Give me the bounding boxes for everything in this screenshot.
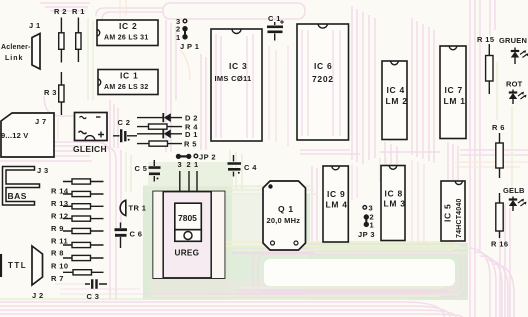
copper ground-plane tint patches bbox=[143, 162, 468, 300]
svg-text:R 1: R 1 bbox=[72, 7, 85, 16]
svg-text:Aclener-: Aclener- bbox=[1, 44, 31, 51]
capacitor C1 bbox=[267, 14, 284, 41]
svg-text:R 10: R 10 bbox=[51, 262, 68, 271]
svg-text:J 1: J 1 bbox=[29, 21, 41, 30]
connector J1 bbox=[29, 21, 41, 69]
LED GELB bbox=[503, 186, 527, 211]
resistor R10 bbox=[51, 255, 104, 270]
svg-text:GELB: GELB bbox=[503, 186, 525, 195]
svg-text:C 1: C 1 bbox=[268, 14, 281, 23]
svg-text:IC 2: IC 2 bbox=[119, 21, 137, 31]
IC2 AM26LS31 bbox=[97, 20, 158, 46]
resistor R2 bbox=[54, 7, 67, 63]
resistor R15 bbox=[477, 35, 494, 94]
svg-text:IC 4: IC 4 bbox=[387, 85, 405, 95]
label Aclener-Link (J1 name) bbox=[1, 44, 31, 62]
LED ROT bbox=[506, 80, 527, 105]
svg-text:JP 2: JP 2 bbox=[199, 153, 216, 162]
jumper JP3 bbox=[358, 204, 375, 240]
svg-text:IC 8: IC 8 bbox=[385, 189, 403, 199]
svg-text:AM 26 LS 31: AM 26 LS 31 bbox=[104, 35, 149, 42]
jumper JP2 bbox=[177, 153, 216, 170]
svg-text:9...12 V: 9...12 V bbox=[1, 131, 28, 140]
svg-text:R 3: R 3 bbox=[44, 88, 57, 97]
capacitor C3 bbox=[85, 279, 107, 301]
voltage regulator UREG 7805 with heatsink bbox=[153, 171, 224, 278]
svg-text:J 3: J 3 bbox=[37, 166, 49, 175]
svg-text:74HCT4040: 74HCT4040 bbox=[456, 198, 463, 238]
svg-text:IC 5: IC 5 bbox=[443, 204, 453, 222]
svg-text:20,0 MHz: 20,0 MHz bbox=[267, 216, 301, 225]
svg-text:GLEICH: GLEICH bbox=[73, 144, 107, 154]
svg-text:C 2: C 2 bbox=[118, 118, 131, 127]
svg-text:IC 3: IC 3 bbox=[229, 61, 247, 71]
svg-text:AM 26 LS 32: AM 26 LS 32 bbox=[104, 84, 149, 91]
capacitor C5 bbox=[135, 160, 161, 182]
svg-text:IC 7: IC 7 bbox=[445, 85, 463, 95]
IC9 LM4 bbox=[323, 166, 348, 242]
svg-text:TTL: TTL bbox=[8, 261, 27, 270]
IC3 IMS C011 bbox=[211, 29, 262, 141]
svg-text:C 3: C 3 bbox=[87, 292, 100, 301]
svg-text:J 7: J 7 bbox=[35, 117, 47, 126]
svg-text:LM 3: LM 3 bbox=[384, 199, 406, 209]
connector J2 bbox=[32, 246, 44, 300]
svg-text:LM 4: LM 4 bbox=[326, 200, 348, 210]
svg-text:IMS CØ11: IMS CØ11 bbox=[215, 74, 252, 83]
svg-text:J P 1: J P 1 bbox=[180, 42, 199, 51]
LED GRUEN bbox=[499, 36, 528, 64]
svg-text:7202: 7202 bbox=[312, 74, 334, 84]
board edge mark left bbox=[0, 254, 2, 277]
svg-text:R 15: R 15 bbox=[477, 35, 494, 44]
svg-text:2: 2 bbox=[187, 160, 192, 169]
svg-text:JP 3: JP 3 bbox=[358, 230, 375, 239]
svg-text:R 5: R 5 bbox=[184, 140, 197, 149]
svg-text:IC 6: IC 6 bbox=[314, 61, 332, 71]
svg-text:3: 3 bbox=[178, 160, 183, 169]
IC8 LM3 bbox=[381, 166, 406, 241]
svg-text:7805: 7805 bbox=[178, 213, 197, 223]
svg-text:D 1: D 1 bbox=[185, 130, 198, 139]
svg-text:IC 1: IC 1 bbox=[120, 71, 138, 81]
resistor R7 bbox=[51, 270, 104, 283]
capacitor C4 bbox=[228, 155, 258, 177]
svg-text:1: 1 bbox=[194, 160, 199, 169]
resistor R13 bbox=[51, 191, 104, 208]
resistor R8 bbox=[51, 242, 104, 257]
svg-text:TR 1: TR 1 bbox=[129, 204, 147, 213]
capacitor C2 bbox=[113, 118, 137, 142]
svg-text:1: 1 bbox=[370, 221, 375, 230]
IC1 AM26LS32 bbox=[98, 70, 158, 95]
resistor R1 bbox=[72, 7, 85, 62]
svg-text:LM 1: LM 1 bbox=[444, 96, 466, 106]
svg-text:UREG: UREG bbox=[175, 249, 200, 258]
jumper JP1 bbox=[176, 17, 199, 51]
resistor R12 bbox=[51, 204, 104, 221]
transistor TR1 bbox=[120, 200, 146, 215]
svg-text:LM 2: LM 2 bbox=[386, 96, 408, 106]
connector J3 BAS bbox=[3, 166, 49, 205]
resistor R14 bbox=[51, 179, 104, 196]
svg-text:ROT: ROT bbox=[506, 80, 523, 89]
svg-text:GRUEN: GRUEN bbox=[499, 36, 527, 45]
resistor R11 bbox=[51, 228, 104, 245]
resistor R9 bbox=[51, 216, 104, 233]
resistor R16 bbox=[491, 193, 508, 249]
resistor R4 bbox=[137, 123, 198, 132]
IC6 7202 bbox=[297, 24, 349, 140]
svg-text:1: 1 bbox=[176, 33, 181, 42]
connector J7 (9..12V power) bbox=[1, 113, 54, 157]
svg-text:C 4: C 4 bbox=[244, 163, 257, 172]
svg-text:R 8: R 8 bbox=[51, 249, 64, 258]
bridge rectifier GLEICH bbox=[73, 113, 107, 155]
IC4 LM2 bbox=[382, 61, 408, 140]
IC5 74HCT4040 bbox=[441, 181, 465, 241]
svg-text:Link: Link bbox=[5, 55, 23, 62]
svg-text:3: 3 bbox=[369, 204, 374, 213]
crystal oscillator Q1 20.0 MHz bbox=[263, 181, 306, 250]
svg-text:R 11: R 11 bbox=[51, 237, 68, 246]
resistor R5 bbox=[137, 140, 197, 149]
svg-text:D 2: D 2 bbox=[185, 114, 198, 123]
capacitor C6 bbox=[115, 223, 143, 249]
resistor R6 bbox=[492, 123, 505, 178]
IC7 LM1 bbox=[440, 46, 466, 139]
svg-text:R 9: R 9 bbox=[51, 224, 64, 233]
resistor R3 bbox=[44, 72, 64, 115]
svg-text:R 16: R 16 bbox=[491, 240, 508, 249]
svg-text:C 6: C 6 bbox=[130, 230, 143, 239]
svg-text:IC 9: IC 9 bbox=[327, 189, 345, 199]
diode D1 bbox=[137, 129, 198, 139]
svg-text:R 7: R 7 bbox=[51, 274, 64, 283]
svg-text:Q 1: Q 1 bbox=[278, 204, 294, 214]
svg-text:R 2: R 2 bbox=[54, 7, 67, 16]
svg-text:J 2: J 2 bbox=[32, 291, 44, 300]
diode D2 bbox=[137, 113, 198, 123]
svg-text:BAS: BAS bbox=[8, 191, 27, 201]
svg-text:R 6: R 6 bbox=[492, 123, 505, 132]
svg-text:C 5: C 5 bbox=[135, 164, 148, 173]
